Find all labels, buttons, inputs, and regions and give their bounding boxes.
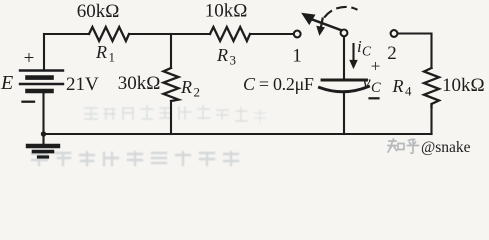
battery short plate 1 — [28, 75, 52, 80]
svg-text:4: 4 — [405, 84, 412, 99]
svg-text:E: E — [0, 72, 13, 94]
svg-text:2: 2 — [194, 85, 201, 100]
battery - sign — [23, 101, 35, 103]
wire: terminal 2 to right corner and down to R4 — [397, 34, 431, 69]
svg-text:1: 1 — [292, 46, 302, 67]
svg-text:R: R — [180, 77, 192, 97]
svg-text:v: v — [363, 72, 371, 92]
svg-text:60kΩ: 60kΩ — [77, 1, 120, 22]
battery short plate 2 — [28, 89, 52, 94]
wire: battery to bottom-left corner — [42, 91, 44, 134]
svg-text:R: R — [216, 45, 228, 65]
switch travel dashed arc — [325, 7, 357, 17]
svg-text:3: 3 — [230, 53, 237, 68]
switch arm with arrowhead — [303, 14, 342, 30]
battery long plate 2 — [20, 83, 63, 85]
svg-text:R: R — [392, 76, 404, 96]
wire: R2 branch upper — [170, 34, 172, 68]
wire: capacitor branch upper (pivot to top plate) — [343, 36, 345, 79]
resistor R4 body — [424, 68, 439, 107]
switch pivot terminal — [341, 30, 348, 37]
wire: top-left corner to R1 — [44, 33, 89, 35]
wire: R3 to terminal 1 — [250, 33, 294, 35]
wire: R4 to bottom rail — [430, 104, 432, 134]
terminal 1 — [294, 31, 301, 38]
svg-text:+: + — [371, 57, 381, 76]
wire: R2 branch lower — [170, 101, 172, 134]
svg-text:30kΩ: 30kΩ — [118, 73, 161, 94]
capacitor C top plate — [322, 79, 367, 82]
svg-text:@snake: @snake — [421, 139, 471, 156]
faint bleed-through text row 2 (bottom, bolder) — [32, 152, 238, 165]
faint bleed-through text row 1 — [85, 106, 265, 122]
battery E — [20, 71, 63, 92]
svg-text:1: 1 — [109, 50, 116, 65]
current iC arrow — [350, 44, 357, 68]
svg-text:C = 0.2μF: C = 0.2μF — [243, 74, 314, 94]
watermark: zhihu glyphs — [388, 139, 419, 153]
circuit ink — [44, 27, 440, 134]
wire: capacitor branch lower — [343, 92, 345, 134]
capacitor C bottom plate (curved) — [320, 87, 369, 92]
svg-text:2: 2 — [387, 43, 397, 64]
wire: R1 to R3 (through node at x=171) — [129, 33, 210, 35]
svg-text:+: + — [24, 48, 35, 69]
wire: left branch down to battery — [43, 34, 45, 71]
battery long plate 1 — [20, 69, 63, 71]
resistor R2 body — [164, 68, 179, 101]
svg-text:C: C — [371, 80, 381, 96]
svg-text:10kΩ: 10kΩ — [442, 75, 485, 96]
svg-text:21V: 21V — [66, 74, 99, 95]
ground — [28, 134, 58, 157]
switch motion arrow (small, pointing down) — [317, 19, 324, 35]
terminal 2 — [391, 30, 398, 37]
resistor R1 body — [89, 27, 129, 41]
vC - sign — [370, 97, 379, 99]
resistor R3 body — [210, 27, 250, 41]
junction dot (ground node) — [41, 131, 46, 136]
wire: bottom rail — [44, 133, 432, 135]
svg-text:R: R — [95, 42, 107, 62]
svg-text:10kΩ: 10kΩ — [205, 1, 248, 22]
